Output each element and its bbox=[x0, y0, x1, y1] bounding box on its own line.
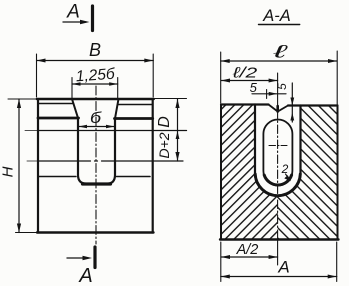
left view: section marker A top bbox=[63, 6, 93, 31]
right view: dimension A/2 line with arrows bbox=[221, 255, 278, 259]
right view: block right edge bbox=[337, 106, 339, 240]
svg-text:5: 5 bbox=[250, 80, 258, 95]
svg-text:A-A: A-A bbox=[262, 7, 291, 25]
right view: dimension l line with arrows bbox=[221, 51, 338, 105]
svg-text:D+2: D+2 bbox=[156, 132, 172, 158]
svg-text:2: 2 bbox=[281, 162, 289, 176]
right view: slot U bottom thick arc bbox=[255, 174, 300, 196]
svg-text:H: H bbox=[0, 166, 17, 177]
left view: slot funnel right slant bbox=[115, 99, 119, 119]
right view: top edge left of notch bbox=[221, 103, 269, 105]
left view: dimension b inside slot bbox=[79, 125, 115, 129]
left view: top edge with H and D extensions bbox=[8, 98, 187, 101]
left view: block left edge bbox=[37, 99, 39, 233]
svg-text:б: б bbox=[90, 109, 102, 127]
right view: dimension 5 vertical bbox=[290, 83, 294, 122]
right view: block left edge bbox=[220, 105, 222, 240]
right view: V-notch bbox=[269, 105, 289, 112]
left view: slot funnel left slant bbox=[72, 99, 78, 118]
svg-text:D: D bbox=[156, 116, 173, 128]
left view: thick line y118 left bbox=[38, 117, 79, 120]
right view: dimension 5 horizontal bbox=[252, 90, 286, 99]
svg-text:A/2: A/2 bbox=[236, 242, 259, 258]
left view: bottom edge extension for H bbox=[16, 232, 38, 234]
left view: hole bottom line y176 right bbox=[117, 176, 151, 178]
right view: hole vertical centerline bbox=[277, 73, 279, 265]
left view: block bottom edge bbox=[37, 231, 154, 233]
left view: hole axis line y162 with D+2 extension bbox=[27, 160, 183, 162]
right view: slot walls with U bottom bbox=[255, 105, 301, 196]
left view: section marker A bottom bbox=[67, 247, 95, 268]
right view: leader with label 2 bbox=[281, 162, 291, 181]
left view: inner line y104 left bbox=[38, 103, 73, 105]
right view: top edge right of notch bbox=[288, 104, 338, 106]
left view: thick line y118 right bbox=[115, 117, 153, 120]
right view: dimension A line with arrows bbox=[221, 242, 337, 282]
left view: hole bottom line y176 left bbox=[38, 176, 76, 178]
left view: slot bottom thick line bbox=[83, 182, 111, 185]
left view: slot walls and rounded bottom bbox=[78, 118, 115, 184]
right view: hole horizontal center dash bbox=[269, 145, 287, 147]
left view: inner line y104 right bbox=[118, 104, 153, 106]
left view: dimension 1,25b with arrows bbox=[72, 78, 118, 99]
right view: oblong hole outline bbox=[263, 120, 292, 186]
left view: dimension H line with arrows bbox=[17, 99, 21, 233]
left view: dimension B line with arrows bbox=[37, 54, 154, 97]
svg-text:1,25б: 1,25б bbox=[75, 66, 116, 86]
svg-text:A: A bbox=[78, 265, 92, 286]
right view: block bottom edge bbox=[220, 238, 339, 240]
svg-text:ℓ/2: ℓ/2 bbox=[232, 64, 257, 81]
left view: vertical centerline bbox=[95, 86, 97, 244]
left view: hole top line y130 with D extension bbox=[25, 130, 38, 132]
svg-text:ℓ: ℓ bbox=[272, 42, 287, 62]
right view: dimension l/2 line with arrows bbox=[221, 79, 278, 83]
svg-text:A: A bbox=[277, 258, 289, 277]
svg-text:5: 5 bbox=[275, 83, 289, 90]
svg-text:В: В bbox=[89, 40, 101, 60]
right view: hatching left half bbox=[215, 100, 285, 245]
svg-text:A: A bbox=[66, 2, 80, 23]
right view: title A-A bbox=[259, 7, 300, 25]
left view: dimension D and D+2 chain line bbox=[175, 99, 179, 161]
right view: oblong hole bottom thick arc bbox=[264, 175, 291, 185]
left view: block right edge bbox=[152, 99, 154, 233]
right view: hatching right half bbox=[270, 100, 345, 245]
